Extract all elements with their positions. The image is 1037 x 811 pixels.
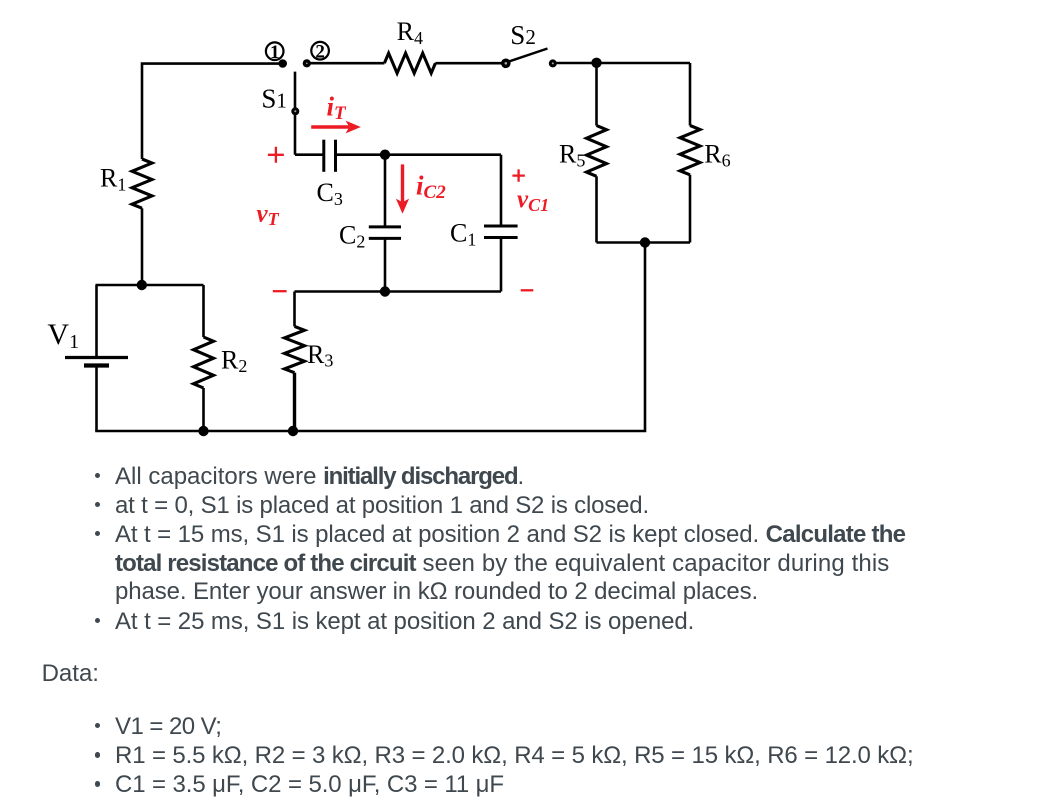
battery V1 plates: [65, 356, 128, 359]
wire top-left: from R1 top corner to S1 position-1 contact: [142, 64, 282, 159]
wire R6 bottom lead: [689, 175, 692, 243]
node label 2 (circled): [311, 41, 329, 62]
wire capacitor bottom rail: [295, 290, 502, 293]
wire V1 top: [95, 285, 98, 357]
wire R5 bottom lead: [595, 176, 598, 242]
node R5-R6 bottom: [640, 237, 650, 247]
capacitor C1 plates: [484, 225, 518, 228]
svg-text:R5: R5: [559, 140, 585, 171]
wire R6 top lead: [689, 63, 692, 126]
capacitor C3 plates: [322, 140, 325, 172]
current arrow iT: [311, 121, 361, 134]
polarity plus (vT): [268, 147, 284, 163]
wire top mid: position-2 contact to R4: [307, 62, 385, 65]
svg-text:R3: R3: [307, 340, 333, 371]
S1 pivot contact: [291, 107, 299, 115]
wire left: R1 bottom to node: [141, 208, 144, 285]
svg-text:iC2: iC2: [416, 170, 446, 203]
wire S1 to C3: [295, 153, 324, 156]
S2 left contact: [501, 59, 511, 69]
resistor R1: [132, 159, 152, 208]
node C3-C2 top: [380, 150, 390, 160]
current arrow iC2: [396, 164, 409, 213]
node label 1 (circled): [266, 42, 284, 63]
switch S1 lever and lead: [294, 72, 297, 155]
wire R2 top lead: [202, 285, 205, 337]
wire R2 bottom lead: [202, 388, 205, 431]
node at R5/top rail: [591, 58, 601, 68]
polarity minus (vC1): [521, 289, 534, 291]
wire C2 top lead: [384, 155, 387, 227]
resistor R6: [680, 126, 700, 175]
svg-text:2: 2: [315, 41, 325, 62]
wire node to R2 top: [96, 284, 204, 287]
resistor R4: [384, 53, 435, 73]
resistor R3: [285, 326, 305, 372]
S1 position-2 contact: [303, 59, 311, 67]
node R2 bottom: [198, 426, 208, 436]
S2 right contact: [549, 59, 557, 67]
wire C1 bottom lead: [500, 238, 503, 292]
polarity minus (vT): [273, 290, 287, 292]
svg-text:R4: R4: [397, 17, 423, 48]
node C2 bottom: [380, 286, 390, 296]
wire C3 to C1 top: [336, 153, 502, 156]
svg-text:C1: C1: [450, 219, 476, 250]
polarity plus (vC1): [512, 169, 524, 181]
wire R5/R6 bottom rail: [597, 241, 691, 244]
svg-text:R1: R1: [100, 164, 126, 195]
svg-text:R2: R2: [221, 345, 247, 376]
resistor R2: [194, 337, 214, 388]
svg-text:S2: S2: [510, 20, 536, 50]
wire V1 bottom: [95, 366, 98, 432]
wire R4 to S2: [435, 62, 505, 65]
node R3 bottom: [288, 426, 298, 436]
svg-text:R6: R6: [704, 140, 730, 171]
switch S2 lever: [506, 49, 548, 63]
node R1 bottom: [137, 280, 147, 290]
svg-text:1: 1: [270, 42, 280, 63]
wire R3 top lead: [293, 292, 296, 327]
svg-text:iT: iT: [327, 92, 348, 125]
svg-text:S1: S1: [261, 84, 287, 114]
svg-text:C3: C3: [317, 178, 343, 209]
wire S2 to R6 corner: [553, 62, 690, 65]
resistor R5: [587, 126, 607, 177]
svg-text:vC1: vC1: [517, 186, 549, 215]
svg-text:C2: C2: [339, 221, 365, 252]
wire C2 bottom lead: [384, 238, 387, 291]
svg-text:vT: vT: [257, 200, 280, 229]
capacitor C2 plates: [369, 225, 401, 228]
wire bottom rail: [95, 243, 645, 432]
wire R5 top lead: [595, 63, 598, 126]
S1 position-1 contact: [278, 59, 287, 68]
wire C1 top lead: [500, 155, 503, 226]
svg-text:V1: V1: [47, 318, 79, 353]
wire R3 bottom lead: [293, 373, 296, 431]
